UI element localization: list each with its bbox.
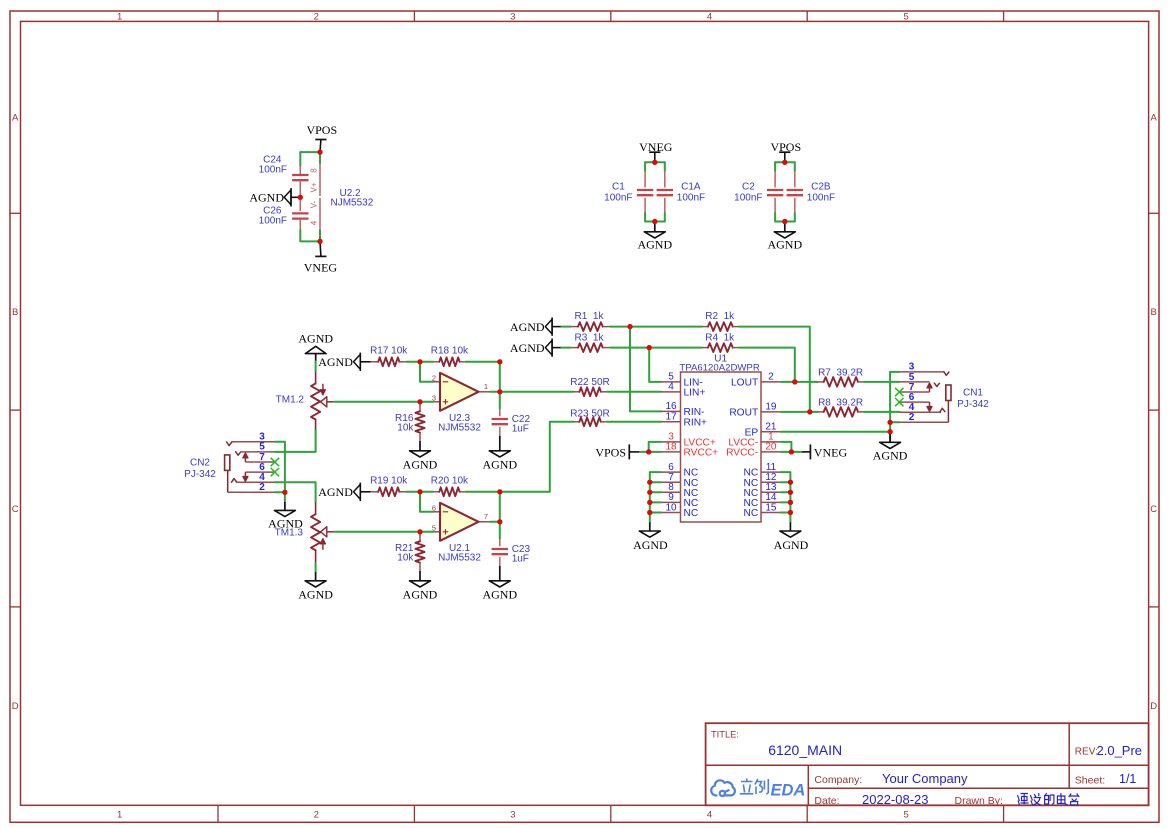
title block Company field	[814, 771, 968, 786]
ground AGND below R21	[403, 571, 438, 602]
wire op-amp + input to node	[420, 531, 433, 533]
svg-text:R3 1k: R3 1k	[575, 333, 605, 344]
wire feedback down to output	[499, 492, 501, 522]
node bottom junction C2/C2B	[782, 219, 787, 224]
title block Date field	[814, 792, 1003, 807]
wire CN2 pin3 to ground bus	[275, 442, 285, 493]
node feedback left junction	[417, 359, 422, 364]
svg-text:AGND: AGND	[774, 538, 809, 552]
svg-text:NJM5532: NJM5532	[331, 198, 374, 209]
svg-text:AGND: AGND	[318, 355, 353, 369]
svg-text:D: D	[1150, 701, 1157, 712]
node VNEG junction	[317, 239, 322, 244]
U1 pin 2 LOUT	[731, 372, 781, 389]
svg-text:100nF: 100nF	[734, 193, 762, 204]
wire R18 right + node	[420, 361, 433, 363]
capacitor C2B 100nF	[787, 171, 836, 213]
svg-text:Company:: Company:	[814, 774, 862, 786]
resistor R23 50R	[570, 409, 609, 427]
node CN2 ground junction	[282, 490, 287, 495]
svg-text:REV:: REV:	[1075, 747, 1098, 758]
svg-text:A: A	[1151, 113, 1158, 124]
node VPOS junction	[646, 449, 651, 454]
wire CN2 pin4 to TM1.3 top	[275, 482, 316, 502]
wire C26 bottom to VNEG junction	[300, 230, 320, 241]
wire CN2 pin2 to ground bus	[275, 492, 285, 502]
capacitor C2 100nF	[734, 171, 783, 213]
U1 pin 21 EP	[745, 422, 781, 439]
resistor R16 10k (to ground)	[395, 402, 425, 441]
svg-text:1/1: 1/1	[1119, 772, 1136, 786]
U1 pin 12 NC	[743, 472, 780, 489]
node VPOS junction	[317, 150, 322, 155]
svg-text:C: C	[12, 504, 19, 515]
svg-text:AGND: AGND	[298, 332, 333, 346]
svg-text:R17 10k: R17 10k	[370, 346, 408, 357]
svg-text:PJ-342: PJ-342	[957, 399, 989, 410]
svg-text:2: 2	[314, 12, 319, 23]
svg-text:AGND: AGND	[633, 538, 668, 552]
svg-text:A: A	[12, 113, 19, 124]
wire R2 right down to ROUT row	[739, 327, 810, 412]
U1 pin 11 NC	[743, 462, 780, 479]
wire feedback down to output	[499, 362, 501, 392]
node CN1 pin2 junction	[888, 420, 893, 425]
svg-text:R22 50R: R22 50R	[570, 377, 609, 388]
ground AGND flag (between C24/C26)	[249, 188, 300, 206]
ground AGND flag at R19 left	[318, 483, 370, 501]
svg-text:R2 1k: R2 1k	[705, 311, 735, 322]
ground AGND below C22	[482, 436, 517, 472]
svg-text:Sheet:: Sheet:	[1075, 775, 1105, 787]
svg-text:18: 18	[665, 442, 677, 453]
resistor R20 10k	[431, 476, 469, 497]
svg-text:3: 3	[510, 12, 515, 23]
wire TM1.2 wiper to R16/U2.3 + node	[335, 401, 420, 403]
svg-text:AGND: AGND	[318, 485, 353, 499]
op-amp U2.3 NJM5532	[432, 373, 490, 434]
wire U2.1 node up to R23	[500, 422, 574, 492]
node top junction C1/C1A	[652, 160, 657, 165]
wire VNEG to RVCC- and LVCC-	[781, 451, 801, 453]
svg-text:R19 10k: R19 10k	[370, 476, 408, 487]
svg-text:CN2: CN2	[190, 457, 210, 468]
U1 pin 14 NC	[743, 492, 780, 509]
resistor R3 1k	[562, 333, 611, 352]
capacitor C1A 100nF	[657, 171, 706, 213]
svg-text:10k: 10k	[397, 423, 414, 434]
svg-text:7: 7	[484, 512, 488, 521]
title block TITLE field	[711, 730, 842, 759]
svg-text:4: 4	[707, 810, 712, 821]
svg-text:100nF: 100nF	[259, 216, 287, 227]
svg-text:VNEG: VNEG	[814, 445, 848, 459]
potentiometer TM1.3	[275, 503, 335, 563]
node bottom junction C1/C1A	[652, 219, 657, 224]
wire R4 right down to LOUT row	[739, 348, 795, 382]
CN2 reference label	[184, 457, 216, 480]
U1 pin 16 RIN-	[661, 401, 704, 418]
U1 pin 20 RVCC-	[726, 442, 781, 459]
svg-text:RIN+: RIN+	[684, 417, 708, 428]
U1 pin 19 ROUT	[729, 402, 780, 419]
svg-text:B: B	[12, 307, 18, 318]
resistor R1 1k	[562, 311, 611, 331]
svg-text:RVCC-: RVCC-	[726, 448, 758, 459]
node R1/R2 junction	[627, 324, 632, 329]
svg-text:AGND: AGND	[510, 320, 545, 334]
svg-text:20: 20	[765, 442, 777, 453]
svg-text:VPOS: VPOS	[595, 445, 626, 459]
svg-text:1uF: 1uF	[512, 424, 529, 435]
wire junction down to U1 RIN-	[630, 327, 661, 412]
svg-text:2: 2	[768, 372, 774, 383]
op-amp U2.1 NJM5532	[432, 503, 490, 564]
svg-text:VPOS: VPOS	[306, 123, 337, 137]
svg-text:AGND: AGND	[873, 449, 908, 463]
ground AGND below U1 left NC pins	[633, 522, 668, 552]
svg-text:1: 1	[117, 12, 122, 23]
U1 pin 15 NC	[743, 502, 780, 519]
wire ROUT to R8	[781, 411, 818, 413]
ground AGND below TM1.3	[298, 572, 333, 601]
svg-text:NC: NC	[684, 508, 699, 519]
svg-text:LOUT: LOUT	[731, 378, 758, 389]
svg-text:TPA6120A2DWPR: TPA6120A2DWPR	[679, 363, 759, 374]
power net VPOS flag at U1	[595, 444, 640, 459]
svg-text:PJ-342: PJ-342	[184, 469, 216, 480]
node NC bus junctions (right)	[788, 480, 793, 515]
wire output node	[490, 391, 500, 393]
svg-text:AGND: AGND	[510, 341, 545, 355]
svg-text:TITLE:: TITLE:	[711, 730, 739, 740]
svg-text:C1A: C1A	[681, 182, 701, 193]
node CN1 EP junction	[888, 429, 893, 434]
wire R17 to R18 node	[406, 361, 420, 363]
title block frame	[706, 723, 1149, 805]
svg-text:B: B	[1151, 307, 1157, 318]
svg-text:4: 4	[310, 220, 319, 225]
no-connect X on CN1 pin 7	[895, 388, 903, 396]
wire R19 to R20 node	[406, 491, 420, 493]
U1 pin 5 LIN-	[661, 372, 703, 389]
svg-text:AGND: AGND	[767, 238, 802, 252]
wire LOUT to R7	[781, 381, 818, 383]
svg-text:2022-08-23: 2022-08-23	[862, 792, 929, 807]
capacitor C24 100nF	[259, 154, 309, 197]
resistor R18 10k	[431, 346, 469, 367]
connector CN2 PJ-342 (input jack)	[225, 442, 275, 493]
wire U1 left NC bus to ground	[650, 472, 661, 522]
svg-text:1: 1	[117, 810, 122, 821]
svg-text:4: 4	[668, 382, 674, 393]
wire R20 right + node	[420, 491, 433, 493]
svg-text:AGND: AGND	[403, 458, 438, 472]
svg-text:6120_MAIN: 6120_MAIN	[768, 742, 842, 758]
svg-text:VNEG: VNEG	[304, 261, 338, 275]
capacitor C22 1uF	[492, 392, 531, 436]
svg-text:AGND: AGND	[298, 588, 333, 602]
svg-text:10: 10	[665, 502, 677, 513]
capacitor C23 1uF	[492, 522, 531, 566]
svg-text:17: 17	[665, 412, 677, 423]
ground AGND above TM1.2	[298, 332, 333, 362]
resistor R2 1k	[702, 311, 739, 331]
node LOUT junction (R4 feedback)	[792, 379, 797, 384]
svg-text:10k: 10k	[397, 553, 414, 564]
svg-text:AGND: AGND	[403, 588, 438, 602]
svg-text:5: 5	[903, 12, 908, 23]
svg-text:D: D	[12, 701, 19, 712]
wire junction down to U1 LIN-	[649, 348, 661, 382]
svg-text:Date:: Date:	[814, 795, 839, 807]
capacitor C1 100nF	[604, 171, 653, 213]
ground AGND below CN2	[268, 502, 303, 531]
capacitor C26 100nF	[259, 197, 309, 230]
ground AGND below C23	[482, 566, 517, 602]
ground AGND below CN1	[873, 434, 908, 463]
svg-text:R7 39.2R: R7 39.2R	[818, 368, 863, 379]
node ROUT junction (R2 feedback)	[807, 409, 812, 414]
U1 pin 18 RVCC+	[661, 442, 718, 459]
ground AGND flag at R1	[510, 317, 562, 335]
wire AGND to TM1.2 top	[315, 362, 317, 373]
svg-text:EDA: EDA	[771, 781, 806, 799]
wire R7 to CN1 pin 5	[864, 381, 899, 383]
svg-text:6: 6	[432, 503, 436, 512]
wire R3 to R4	[610, 347, 702, 349]
svg-text:Your Company: Your Company	[882, 771, 968, 786]
title block Sheet field	[1075, 772, 1137, 786]
svg-text:R18 10k: R18 10k	[431, 346, 469, 357]
svg-text:100nF: 100nF	[677, 193, 705, 204]
wire bottom rail of C1/C1A	[645, 213, 665, 222]
ground AGND flag at R17 left	[318, 353, 370, 371]
svg-text:TM1.2: TM1.2	[276, 394, 305, 405]
svg-text:4: 4	[707, 12, 712, 23]
U1 pin 7 NC	[661, 472, 698, 489]
wire top rail of C2/C2B	[775, 161, 795, 163]
CN1 reference label	[957, 387, 989, 410]
svg-text:Drawn By:: Drawn By:	[955, 795, 1003, 807]
wire output node	[490, 521, 500, 523]
U1 pin 10 NC	[661, 502, 698, 519]
wire TM1.3 wiper to R21/U2.1	[335, 531, 420, 533]
node junction dots overlay	[282, 150, 892, 535]
svg-text:R20 10k: R20 10k	[431, 476, 469, 487]
wire VPOS junction to C24 top	[300, 151, 320, 153]
svg-text:NJM5532: NJM5532	[438, 553, 481, 564]
no-connect X on CN2 pin 6	[271, 468, 279, 476]
logo LCEDA (立创EDA)	[711, 779, 805, 800]
U1 pin 3 LVCC+	[661, 432, 716, 449]
svg-text:V-: V-	[310, 200, 319, 208]
resistor R22 50R	[500, 377, 610, 396]
power net VNEG flag at U1	[801, 444, 847, 459]
power net VPOS flag (top of U2.2)	[306, 123, 337, 152]
wire R8 to CN1 pin 4	[864, 411, 899, 413]
svg-text:8: 8	[310, 168, 319, 173]
svg-text:2: 2	[432, 373, 436, 382]
ground AGND below C2/C2B	[767, 222, 802, 252]
wire EP to CN1 ground bus	[781, 431, 890, 433]
svg-text:V+: V+	[310, 182, 319, 192]
wire top rail of C1/C1A	[645, 161, 665, 163]
svg-text:2: 2	[314, 810, 319, 821]
node AGND junction at C24/C26	[298, 195, 303, 200]
svg-text:C1: C1	[612, 182, 625, 193]
svg-text:1: 1	[484, 382, 488, 391]
power net VPOS flag (top of C2/C2B)	[770, 140, 801, 163]
svg-text:ROUT: ROUT	[729, 408, 758, 419]
ground AGND below U1 right NC pins	[774, 522, 809, 552]
svg-text:2: 2	[259, 482, 265, 493]
resistor R19 10k	[370, 476, 408, 497]
svg-text:3: 3	[510, 810, 515, 821]
svg-text:2.0_Pre: 2.0_Pre	[1097, 743, 1143, 758]
svg-text:16: 16	[665, 401, 677, 412]
svg-text:AGND: AGND	[482, 588, 517, 602]
resistor R21 10k (to ground)	[395, 532, 425, 571]
wire TM1.3 bottom to ground	[315, 563, 317, 572]
svg-text:RIN-: RIN-	[684, 407, 705, 418]
svg-text:R23 50R: R23 50R	[570, 409, 609, 420]
svg-text:C: C	[1150, 504, 1157, 515]
resistor R8 39.2R	[818, 398, 864, 417]
U1 pin 13 NC	[743, 482, 780, 499]
node NC bus junctions (left)	[647, 480, 652, 515]
wire junction down to op-amp inverting input	[420, 492, 433, 512]
U1 pin 1 LVCC-	[728, 432, 780, 449]
svg-text:C2: C2	[742, 182, 755, 193]
wire bottom rail of C2/C2B	[775, 213, 795, 222]
wire CN2 pin5 to TM1.2 bottom	[275, 430, 316, 452]
svg-text:CN1: CN1	[963, 387, 983, 398]
svg-text:5: 5	[903, 810, 908, 821]
wire VPOS to RVCC+ and LVCC+	[640, 451, 661, 453]
wire CN1 pin2 stub to bus	[890, 421, 899, 423]
IC U1 TPA6120A2DWPR body	[679, 354, 761, 522]
U1 pin 4 LIN+	[661, 382, 705, 399]
svg-text:R1 1k: R1 1k	[575, 311, 605, 322]
potentiometer TM1.2	[276, 372, 335, 430]
wire R1 to R2 and down to RIN-	[610, 326, 702, 328]
svg-text:R4 1k: R4 1k	[705, 333, 735, 344]
no-connect X on CN1 pin 6	[895, 398, 903, 406]
svg-text:2: 2	[909, 412, 915, 423]
wire R23 to U1 RIN+	[607, 421, 661, 423]
wire op-amp + input to node	[420, 401, 433, 403]
resistor R4 1k	[702, 333, 739, 352]
svg-text:TM1.3: TM1.3	[275, 528, 304, 539]
wire junction down to op-amp inverting input	[420, 362, 433, 382]
svg-text:C2B: C2B	[811, 182, 831, 193]
svg-text:R8 39.2R: R8 39.2R	[818, 398, 863, 409]
node R3/R4 junction	[647, 345, 652, 350]
no-connect X on CN2 pin 7	[271, 458, 279, 466]
svg-text:1uF: 1uF	[512, 554, 529, 565]
wire U1 right NC bus to ground	[781, 472, 791, 522]
ground AGND flag at R3	[510, 338, 562, 356]
svg-text:AGND: AGND	[637, 238, 672, 252]
U1 pin 17 RIN+	[661, 412, 707, 429]
wire CN1 pin3/pin2 ground bus	[890, 372, 899, 442]
svg-text:15: 15	[765, 502, 777, 513]
svg-text:NJM5532: NJM5532	[438, 423, 481, 434]
title block REV field	[1075, 743, 1142, 758]
svg-text:NC: NC	[743, 508, 758, 519]
ground AGND below C1/C1A	[637, 222, 672, 252]
op-amp U2.2 power pins (NJM5532 V+/V-)	[310, 152, 374, 241]
svg-text:AGND: AGND	[482, 458, 517, 472]
svg-text:RVCC+: RVCC+	[684, 448, 719, 459]
svg-text:100nF: 100nF	[807, 193, 835, 204]
power net VNEG flag (bottom of U2.2)	[304, 241, 338, 274]
svg-text:19: 19	[765, 402, 777, 413]
title block Drawn By CJK name (滤波的电容)	[1018, 793, 1080, 805]
svg-text:AGND: AGND	[249, 191, 284, 205]
resistor R17 10k	[370, 346, 408, 367]
svg-text:LIN+: LIN+	[684, 388, 706, 399]
connector CN1 PJ-342 (output jack)	[899, 372, 951, 423]
node VNEG junction	[789, 449, 794, 454]
node feedback left junction	[417, 489, 422, 494]
U1 pin 8 NC	[661, 482, 698, 499]
U1 pin 9 NC	[661, 492, 698, 509]
node top junction C2/C2B	[782, 160, 787, 165]
U1 pin 6 NC	[661, 462, 698, 479]
svg-text:100nF: 100nF	[259, 164, 287, 175]
ground AGND below R16	[403, 441, 438, 472]
svg-text:100nF: 100nF	[604, 193, 632, 204]
power net VNEG flag (top of C1/C1A)	[639, 140, 673, 163]
wire R22 to U1 LIN+	[607, 391, 661, 393]
resistor R7 39.2R	[818, 368, 864, 387]
